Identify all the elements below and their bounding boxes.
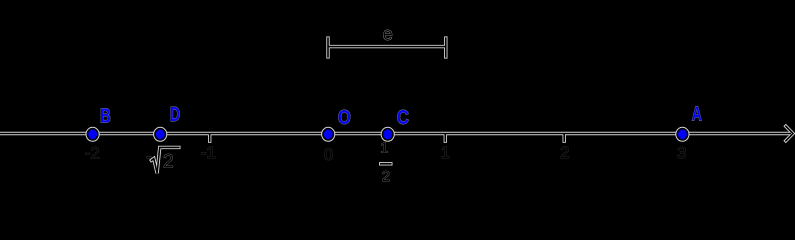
svg-text:2: 2 — [163, 152, 174, 173]
tick 1 core — [444, 134, 446, 142]
svg-text:2: 2 — [382, 169, 390, 185]
svg-text:3: 3 — [677, 143, 686, 162]
tick -1 core — [209, 134, 211, 142]
tick 2 halo — [563, 134, 566, 143]
unit bracket core — [328, 46, 446, 48]
svg-text:-1: -1 — [201, 143, 216, 162]
svg-text:A: A — [692, 104, 702, 126]
svg-text:O: O — [338, 107, 351, 129]
unit bracket halo — [328, 45, 446, 48]
wire: axis line core — [0, 133, 791, 135]
svg-text:-: - — [146, 147, 152, 166]
svg-text:C: C — [397, 107, 409, 129]
tick 2 core — [563, 134, 565, 142]
white halo layer: axis line — [0, 36, 793, 173]
svg-text:2: 2 — [560, 143, 569, 162]
svg-text:1: 1 — [380, 140, 388, 156]
svg-text:0: 0 — [324, 145, 333, 164]
black core layer — [0, 37, 793, 173]
point A — [675, 127, 689, 142]
tick -1 halo — [208, 134, 211, 143]
point D — [153, 127, 167, 142]
point O — [321, 127, 335, 142]
arrowhead core — [785, 126, 793, 142]
radical sign core — [151, 147, 180, 173]
arrowhead halo — [785, 125, 793, 142]
radical sign halo (sqrt under D) — [150, 147, 181, 173]
tick 1 halo — [444, 134, 447, 143]
svg-text:1: 1 — [441, 143, 450, 162]
point B — [86, 127, 100, 142]
fraction bar core — [380, 163, 392, 165]
svg-text:-2: -2 — [85, 144, 100, 163]
svg-text:e: e — [383, 24, 393, 44]
point C — [381, 127, 395, 142]
faint numerals (black text with white AA halo) — [85, 24, 687, 185]
svg-text:D: D — [170, 104, 180, 126]
svg-text:B: B — [100, 106, 111, 128]
fraction bar halo (1/2 under C) — [379, 162, 393, 165]
